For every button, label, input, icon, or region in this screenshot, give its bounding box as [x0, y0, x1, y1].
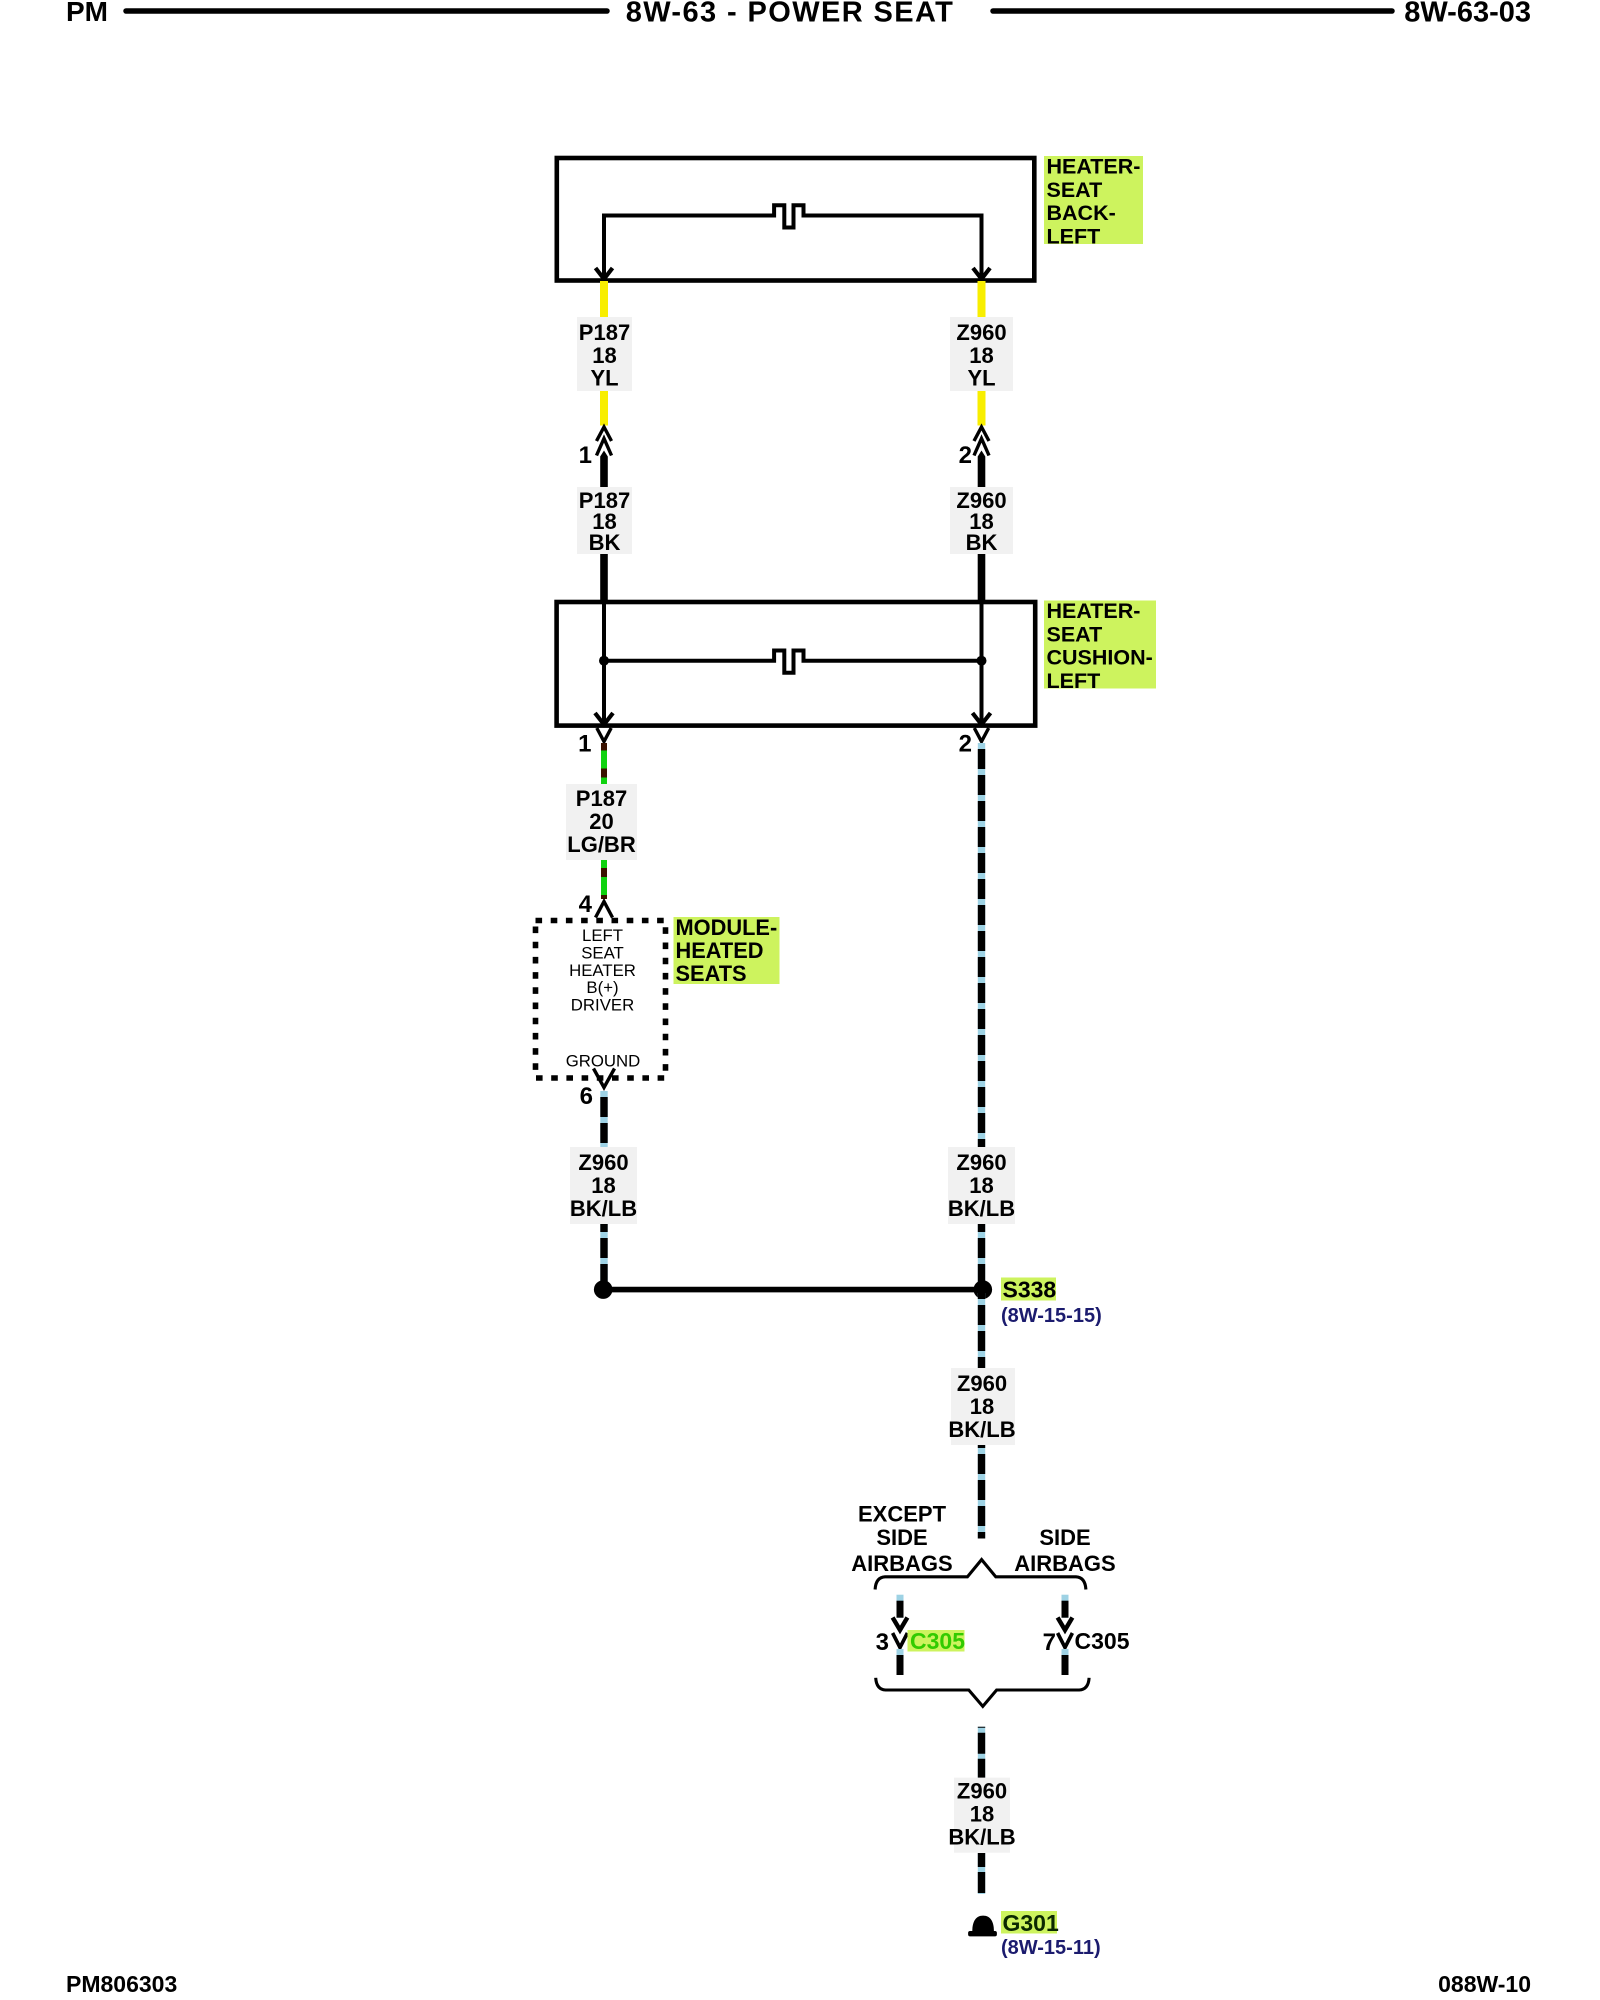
note EXCEPT SIDE AIRBAGS	[851, 1502, 952, 1577]
svg-text:088W-10: 088W-10	[1438, 1971, 1531, 1997]
label Z960 18 BK/LB (right)	[948, 1147, 1015, 1224]
label MODULE-HEATED SEATS	[674, 917, 780, 984]
svg-text:S338: S338	[1003, 1277, 1057, 1303]
svg-text:20: 20	[589, 809, 613, 834]
wire Z960 BK/LB (below splice)	[978, 1293, 985, 1368]
label P187 18 YL	[577, 317, 632, 391]
wire Z960 BK/LB (below braces)	[978, 1727, 985, 1778]
svg-text:LEFT: LEFT	[1047, 224, 1101, 248]
lower brace	[876, 1678, 1089, 1707]
module pin 4 connector	[596, 902, 613, 918]
junction dot pin2 side	[977, 656, 987, 666]
svg-text:(8W-15-15): (8W-15-15)	[1001, 1305, 1102, 1327]
svg-text:BK/LB: BK/LB	[948, 1417, 1015, 1442]
component box: HEATER-SEAT BACK-LEFT	[557, 158, 1035, 281]
header title block	[66, 0, 1531, 29]
svg-text:PM: PM	[66, 0, 108, 27]
svg-text:AIRBAGS: AIRBAGS	[1014, 1551, 1115, 1576]
svg-text:AIRBAGS: AIRBAGS	[851, 1551, 952, 1576]
svg-text:HEATER-: HEATER-	[1047, 155, 1141, 179]
svg-text:BK/LB: BK/LB	[948, 1196, 1015, 1221]
wire below pin 7	[1062, 1649, 1069, 1675]
svg-text:BK/LB: BK/LB	[948, 1825, 1015, 1850]
upper brace	[875, 1560, 1086, 1590]
svg-text:Z960: Z960	[957, 1371, 1007, 1396]
wire Z960 YL (right, below back box)	[978, 281, 986, 318]
svg-text:SIDE: SIDE	[1039, 1525, 1090, 1550]
svg-text:PM806303: PM806303	[66, 1971, 177, 1997]
svg-text:18: 18	[592, 343, 616, 368]
svg-text:HEATER-: HEATER-	[1047, 599, 1141, 623]
wire P187 20 LG/BR (left)	[601, 743, 607, 899]
svg-text:P187: P187	[579, 320, 630, 345]
svg-text:EXCEPT: EXCEPT	[858, 1502, 947, 1527]
connector C305 pin 3 (double chevron)	[893, 1618, 908, 1648]
svg-text:SEATS: SEATS	[676, 961, 747, 986]
heater element inside back-left box	[604, 205, 982, 277]
in-line connector pin 2 (right)	[974, 427, 989, 456]
label P187 20 LG/BR	[566, 784, 637, 860]
svg-text:18: 18	[970, 1394, 994, 1419]
svg-text:SEAT: SEAT	[581, 943, 624, 962]
label S338	[1001, 1278, 1056, 1301]
svg-text:8W-63-03: 8W-63-03	[1404, 0, 1531, 29]
wire Z960 BK/LB (right, cushion pin2 to splice)	[978, 743, 985, 1286]
svg-text:18: 18	[969, 343, 993, 368]
connector pin 2 at cushion box	[974, 728, 988, 742]
svg-text:8W-63 - POWER SEAT: 8W-63 - POWER SEAT	[626, 0, 955, 29]
svg-text:18: 18	[969, 1173, 993, 1198]
svg-text:Z960: Z960	[957, 1779, 1007, 1804]
svg-text:7: 7	[1043, 1629, 1056, 1656]
svg-text:Z960: Z960	[578, 1150, 628, 1175]
note SIDE AIRBAGS	[1014, 1525, 1115, 1576]
junction dot pin1 side	[599, 656, 609, 666]
svg-text:HEATED: HEATED	[676, 938, 764, 963]
svg-text:4: 4	[579, 891, 593, 918]
arrow into pin 2 (box bottom, right)	[973, 268, 990, 279]
module pin 6 connector	[594, 1069, 615, 1088]
wire P187 BK (left, into cushion box)	[600, 554, 608, 601]
label Z960 18 BK	[950, 487, 1013, 554]
svg-text:3: 3	[876, 1629, 889, 1656]
svg-text:1: 1	[578, 731, 591, 758]
arrow to cushion pin 2	[973, 713, 991, 725]
label HEATER-SEAT BACK-LEFT	[1044, 156, 1143, 244]
svg-text:CUSHION-: CUSHION-	[1047, 646, 1153, 670]
wire Z960 BK/LB (left, pin6 to splice)	[600, 1091, 607, 1286]
svg-text:Z960: Z960	[956, 320, 1006, 345]
branch wire (except side airbags)	[897, 1595, 904, 1618]
wire to ground	[978, 1853, 985, 1894]
ground G301	[972, 1916, 994, 1931]
svg-text:LG/BR: LG/BR	[567, 832, 636, 857]
arrow into pin 1 (box bottom, left)	[596, 268, 613, 279]
label G301	[1001, 1911, 1057, 1934]
svg-text:MODULE-: MODULE-	[676, 915, 778, 940]
arrow to cushion pin 1	[595, 713, 613, 725]
svg-text:YL: YL	[967, 366, 995, 391]
svg-text:BACK-: BACK-	[1047, 201, 1116, 225]
wire to airbag branch brace	[978, 1445, 985, 1539]
svg-text:Z960: Z960	[956, 1150, 1006, 1175]
connector pin 1 at cushion box	[597, 728, 611, 742]
svg-text:B(+): B(+)	[586, 978, 618, 997]
svg-text:BK/LB: BK/LB	[570, 1196, 637, 1221]
header rule right	[993, 8, 1392, 14]
svg-text:LEFT: LEFT	[582, 926, 623, 945]
in-line connector pin 1 (left)	[597, 427, 612, 456]
svg-text:SIDE: SIDE	[876, 1525, 927, 1550]
svg-text:LEFT: LEFT	[1047, 669, 1101, 693]
wire Z960 BK (right, into cushion box)	[978, 554, 986, 601]
label P187 18 BK	[577, 487, 632, 554]
svg-text:2: 2	[959, 731, 972, 758]
svg-text:18: 18	[970, 1802, 994, 1827]
label C305 (green on highlight)	[908, 1630, 965, 1652]
connector C305 pin 7 (double chevron)	[1058, 1618, 1073, 1648]
svg-text:C305: C305	[1075, 1628, 1130, 1654]
svg-text:(8W-15-11): (8W-15-11)	[1001, 1937, 1101, 1959]
svg-text:2: 2	[959, 442, 972, 469]
label Z960 18 YL	[950, 317, 1013, 391]
heater element inside cushion box	[604, 602, 982, 722]
svg-text:HEATER: HEATER	[569, 961, 636, 980]
svg-text:G301: G301	[1003, 1910, 1059, 1936]
branch wire (side airbags)	[1062, 1595, 1069, 1618]
svg-text:6: 6	[580, 1083, 593, 1110]
svg-text:P187: P187	[576, 786, 627, 811]
svg-text:GROUND: GROUND	[566, 1052, 641, 1071]
label HEATER-SEAT CUSHION-LEFT	[1044, 601, 1156, 689]
svg-text:1: 1	[579, 442, 592, 469]
svg-text:SEAT: SEAT	[1047, 622, 1103, 646]
svg-text:SEAT: SEAT	[1047, 178, 1103, 202]
splice S338	[603, 1287, 983, 1293]
label Z960 18 BK/LB (left)	[570, 1147, 637, 1224]
label Z960 18 BK/LB (bottom)	[954, 1778, 1010, 1853]
module box (dashed): MODULE-HEATED SEATS	[536, 921, 666, 1079]
wire P187 YL (left, below back box)	[600, 281, 608, 318]
wire below pin 3	[897, 1649, 904, 1675]
module pin function labels	[566, 926, 641, 1071]
svg-text:YL: YL	[590, 366, 618, 391]
svg-text:BK: BK	[589, 530, 621, 555]
label Z960 18 BK/LB (below splice)	[951, 1368, 1015, 1445]
svg-text:C305: C305	[910, 1628, 965, 1654]
svg-text:DRIVER: DRIVER	[571, 996, 634, 1015]
svg-text:18: 18	[591, 1173, 615, 1198]
component box: HEATER-SEAT CUSHION-LEFT	[557, 602, 1036, 726]
svg-text:BK: BK	[966, 530, 998, 555]
header rule left	[126, 8, 607, 14]
